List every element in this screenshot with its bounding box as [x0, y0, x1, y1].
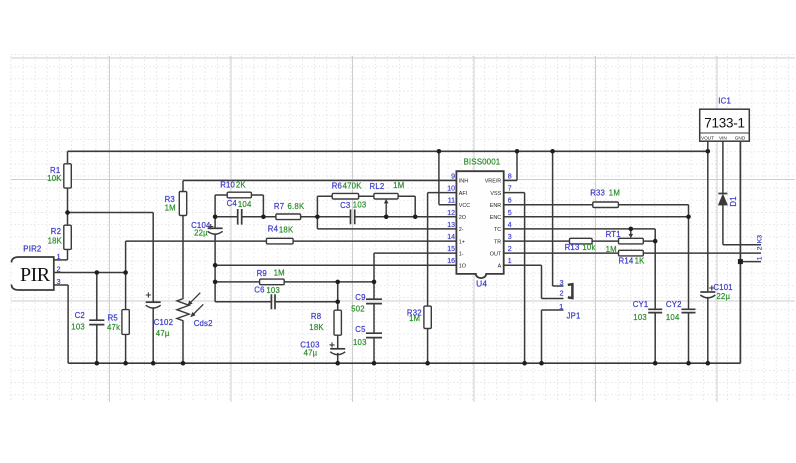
capacitor C101 (electrolytic): [700, 283, 733, 301]
svg-text:VCC: VCC: [459, 203, 470, 209]
wire C2 bottom lead: [96, 325, 98, 364]
svg-text:R10: R10: [220, 181, 235, 190]
wire pin9 INH row: [183, 180, 456, 182]
svg-text:INH: INH: [459, 179, 468, 185]
svg-text:1M: 1M: [409, 314, 420, 323]
node gnd R5: [123, 361, 128, 366]
svg-text:R8: R8: [311, 312, 321, 321]
node gnd C102: [151, 361, 156, 366]
resistor R9: [257, 269, 285, 285]
resistor R2: [48, 225, 72, 249]
wire R8 column: [337, 282, 339, 348]
svg-text:R33: R33: [590, 189, 605, 198]
connector JP1: [559, 278, 580, 321]
sensor PIR2: [12, 245, 61, 291]
svg-text:1: 1: [757, 256, 764, 260]
svg-text:C4: C4: [227, 199, 238, 208]
resistor R4: [266, 225, 294, 244]
svg-text:2: 2: [559, 289, 563, 298]
svg-text:18K: 18K: [279, 225, 294, 234]
svg-text:CY2: CY2: [666, 300, 682, 309]
wire R4 riser: [125, 241, 127, 272]
svg-text:R6: R6: [332, 182, 342, 191]
wire pin15 1- row: [374, 252, 456, 254]
resistor R7: [274, 202, 305, 220]
svg-text:1: 1: [559, 302, 563, 311]
wire pin12 row seg C4 left: [215, 216, 238, 218]
wire C6 row left: [215, 301, 271, 303]
U4 pin 1 (A) label: [498, 258, 512, 269]
resistor R32: [407, 306, 431, 328]
svg-text:R5: R5: [108, 313, 119, 322]
wire C9 top lead: [373, 253, 375, 299]
wire pin8 VREF row: [504, 180, 517, 182]
wire JP1 pin1 stub: [542, 309, 564, 311]
wire C102 top lead: [152, 213, 154, 303]
svg-text:10K: 10K: [47, 174, 62, 183]
svg-text:AFI: AFI: [459, 191, 467, 197]
node gnd C5: [372, 361, 377, 366]
U4 pin 9 (INH) label: [451, 174, 468, 185]
svg-text:5: 5: [508, 210, 512, 217]
node node RT1/TC/CY1: [653, 239, 658, 244]
connector K pin labels: [757, 235, 764, 260]
wire CY1 bottom lead: [654, 313, 656, 363]
capacitor C5: [353, 325, 382, 347]
node gnd JP1: [539, 361, 544, 366]
capacitor C4: [227, 199, 252, 224]
svg-text:2K: 2K: [236, 181, 247, 190]
U4 pin 11 (VCC) label: [448, 198, 471, 209]
svg-text:16: 16: [447, 258, 455, 265]
wire PIR pin1 stub: [54, 259, 68, 261]
node node C2/pin2: [95, 270, 100, 275]
U4 pin 14 (1+) label: [447, 234, 465, 245]
svg-text:A: A: [498, 263, 502, 269]
resistor R6: [332, 182, 363, 199]
wire PIR pin3 stub: [54, 284, 68, 286]
wire pin3 TR row / R13 RT1: [504, 240, 656, 242]
svg-text:1M: 1M: [274, 269, 285, 278]
U4 pin 3 (TR) label: [494, 234, 512, 245]
svg-text:1O: 1O: [459, 263, 466, 269]
wire C9-C5 link: [373, 304, 375, 333]
svg-text:ENR: ENR: [490, 203, 501, 209]
wire pin13 riser: [316, 217, 318, 229]
wire RL2 right riser: [414, 196, 416, 217]
U4 pin 2 (OUT) label: [490, 246, 512, 257]
U4 pin 8 (VRE/R) label: [485, 174, 512, 185]
node node VCC/VOUT: [706, 149, 711, 154]
capacitor CY1: [633, 300, 663, 322]
wire R6 left riser: [316, 196, 318, 217]
svg-text:14: 14: [447, 234, 455, 241]
node node RL2/AFI? pin12: [413, 215, 418, 220]
svg-text:Cds2: Cds2: [194, 319, 213, 328]
wire pin7 VSS row: [504, 192, 525, 194]
svg-text:1-: 1-: [459, 251, 464, 257]
wire VREF riser: [516, 151, 518, 180]
node gnd CY1: [653, 361, 658, 366]
wire R10 left riser: [214, 195, 216, 217]
wire pin5 ENC row: [504, 216, 689, 218]
node gnd C103: [335, 361, 340, 366]
svg-text:104: 104: [666, 313, 680, 322]
wire JP1 pin2 stub: [542, 298, 564, 300]
svg-text:GND: GND: [735, 136, 746, 141]
svg-text:C101: C101: [713, 283, 732, 292]
svg-text:JP1: JP1: [567, 312, 581, 321]
wire C5 bottom lead: [373, 338, 375, 363]
capacitor C104 (electrolytic): [191, 221, 223, 238]
wire pin2 OUT row / R14: [504, 252, 761, 254]
wire VIN column to D1: [722, 141, 724, 193]
svg-text:1K: 1K: [635, 256, 646, 265]
wire pin10 AFI row: [428, 192, 457, 194]
capacitor CY2: [666, 300, 696, 322]
svg-text:PIR2: PIR2: [23, 245, 41, 254]
wire C101 bottom lead: [707, 297, 709, 363]
svg-text:VRE/R: VRE/R: [485, 179, 502, 185]
wire pin12 row seg C4-C3: [242, 216, 351, 218]
wire R1/R2 node to C102: [68, 212, 154, 214]
wire R6-RL2 top run: [317, 195, 415, 197]
svg-text:R4: R4: [268, 225, 279, 234]
U4 pin 15 (1-) label: [447, 246, 464, 257]
U4 pin 12 (2O) label: [447, 210, 466, 221]
svg-text:47k: 47k: [107, 323, 120, 332]
svg-text:22µ: 22µ: [716, 292, 730, 301]
svg-text:103: 103: [633, 313, 647, 322]
svg-text:1: 1: [56, 252, 60, 261]
U4 pin 16 (1O) label: [447, 258, 466, 269]
U4 pin 7 (VSS) label: [490, 186, 511, 197]
svg-text:18K: 18K: [309, 323, 324, 332]
wire VCC drop to JP1 pin3: [552, 151, 554, 286]
svg-text:103: 103: [353, 201, 367, 210]
node node R9/C9: [372, 280, 377, 285]
U4 pin 5 (ENC) label: [490, 210, 512, 221]
node gnd CY2: [686, 361, 691, 366]
svg-text:502: 502: [351, 304, 365, 313]
svg-text:7: 7: [508, 186, 512, 193]
svg-text:C2: C2: [75, 311, 85, 320]
U4 pin 13 (2-) label: [447, 222, 464, 233]
wire CY2 bottom lead: [688, 313, 690, 363]
svg-text:4: 4: [508, 222, 512, 229]
svg-text:R13: R13: [565, 243, 580, 252]
svg-text:C5: C5: [355, 325, 366, 334]
svg-text:R2: R2: [51, 227, 61, 236]
svg-text:6: 6: [508, 198, 512, 205]
svg-text:OUT: OUT: [490, 251, 502, 257]
wire pin6 ENR row / R33: [504, 204, 689, 206]
svg-text:C3: C3: [340, 201, 350, 210]
wire pin16 1O row: [215, 264, 456, 266]
svg-text:C9: C9: [355, 293, 365, 302]
wire TC-CY1 column top: [654, 229, 656, 309]
wire ENC-CY2 column top: [688, 205, 690, 309]
wire R5 column: [125, 273, 127, 364]
U4 pin 10 (AFI) label: [447, 186, 467, 197]
wire C103 bottom lead: [337, 353, 339, 363]
diode D1: [718, 194, 738, 207]
svg-text:K3: K3: [757, 235, 764, 244]
wire R10 top run: [215, 194, 263, 196]
svg-text:470K: 470K: [343, 182, 363, 191]
svg-text:3: 3: [56, 277, 60, 286]
svg-text:D1: D1: [729, 196, 738, 206]
node node R5/R4: [123, 270, 128, 275]
svg-text:C6: C6: [254, 286, 264, 295]
svg-text:C102: C102: [154, 318, 173, 327]
svg-text:ENC: ENC: [490, 215, 501, 221]
svg-text:1M: 1M: [165, 204, 176, 213]
svg-text:1M: 1M: [609, 189, 620, 198]
capacitor C102 (electrolytic): [146, 292, 173, 338]
svg-text:47µ: 47µ: [156, 329, 170, 338]
wire D1 anode lead: [722, 205, 724, 245]
node node VCC/pin11: [437, 149, 442, 154]
wire R10 right riser: [262, 195, 264, 217]
potentiometer RT1: [606, 229, 644, 254]
svg-text:103: 103: [266, 286, 280, 295]
wire connector K pin1 stub: [740, 261, 761, 263]
svg-text:R9: R9: [257, 269, 267, 278]
wire C6 row right: [275, 301, 338, 303]
svg-text:103: 103: [353, 338, 367, 347]
node node C6/R8: [335, 300, 340, 305]
wire connector K pin3 stub: [723, 244, 761, 246]
U4 pin 4 (TC) label: [494, 222, 512, 233]
svg-text:1+: 1+: [459, 239, 465, 245]
wire AFI-R32 column: [427, 193, 429, 364]
wire pin1 A row: [504, 264, 542, 266]
node gnd R32: [425, 361, 430, 366]
wire Cds2 bottom lead: [182, 322, 184, 363]
wire pin13 2- row: [317, 228, 456, 230]
resistor R33: [590, 189, 620, 208]
wire A drop: [541, 265, 543, 298]
svg-text:U4: U4: [476, 278, 487, 288]
wire JP1 pin3 stub: [553, 285, 564, 287]
svg-text:VSS: VSS: [490, 191, 501, 197]
wire C104 top lead: [214, 217, 216, 228]
resistor R8: [309, 310, 341, 335]
node node R7/R6/C3/pin13: [315, 215, 320, 220]
wire R1-R2 column: [67, 151, 69, 260]
svg-text:47µ: 47µ: [304, 349, 318, 358]
wire pin4 TC row: [504, 228, 656, 230]
resistor R13: [565, 238, 596, 252]
node node C104/R9: [213, 280, 218, 285]
wire PIR pin2 row: [54, 272, 126, 274]
resistor R14: [619, 250, 646, 265]
svg-text:10k: 10k: [582, 243, 595, 252]
capacitor C3: [340, 201, 366, 225]
node gnd Cds2: [181, 361, 186, 366]
node node C4/R7: [261, 215, 266, 220]
wire VSS ground column: [524, 193, 526, 364]
wire VCC top rail: [68, 150, 708, 152]
svg-text:2: 2: [56, 265, 60, 274]
svg-text:6.8K: 6.8K: [288, 202, 305, 211]
wire left ground riser: [67, 285, 69, 363]
svg-text:1M: 1M: [606, 245, 617, 254]
svg-text:15: 15: [447, 246, 455, 253]
svg-text:7133-1: 7133-1: [704, 116, 745, 131]
svg-text:13: 13: [447, 222, 455, 229]
wire JP1 pin1 ground riser: [541, 310, 543, 363]
svg-text:TC: TC: [494, 227, 501, 233]
svg-text:1: 1: [508, 258, 512, 265]
svg-text:18K: 18K: [48, 237, 63, 246]
wire pin14 1+ row / R4: [126, 240, 457, 242]
node node R9/R8: [335, 280, 340, 285]
svg-text:9: 9: [451, 174, 455, 181]
wire R9 row: [215, 281, 374, 283]
node GND/K pin1: [738, 259, 743, 264]
svg-text:2: 2: [757, 246, 764, 250]
wire C102 bottom lead: [152, 307, 154, 363]
capacitor C6: [254, 286, 280, 310]
resistor R1: [47, 164, 71, 188]
svg-text:12: 12: [447, 210, 455, 217]
wire right ground column: [739, 141, 741, 363]
svg-text:2O: 2O: [459, 215, 466, 221]
svg-text:R14: R14: [619, 256, 634, 265]
node node R33/ENC/CY2: [686, 215, 691, 220]
svg-text:R7: R7: [274, 202, 284, 211]
node node RT1 wiper/TC: [629, 227, 634, 232]
op-amp IC U4 BISS0001: [456, 157, 503, 288]
svg-text:22µ: 22µ: [194, 229, 208, 238]
svg-text:104: 104: [238, 200, 252, 209]
svg-text:BISS0001: BISS0001: [464, 157, 501, 166]
potentiometer RL2: [370, 181, 405, 217]
resistor R10: [220, 181, 251, 198]
wire C104 bottom lead: [214, 234, 216, 302]
svg-text:RT1: RT1: [606, 230, 621, 239]
svg-text:2-: 2-: [459, 227, 464, 233]
svg-text:TR: TR: [494, 239, 501, 245]
node gnd VSS: [522, 361, 527, 366]
wire C2 top lead: [96, 273, 98, 321]
resistor R5: [107, 310, 129, 335]
svg-text:1M: 1M: [393, 181, 404, 190]
wire VOUT column upper: [707, 141, 709, 291]
node node VCC/JP1: [550, 149, 555, 154]
svg-text:103: 103: [71, 322, 85, 331]
node node R10/C4/C104: [213, 215, 218, 220]
svg-text:11: 11: [448, 198, 455, 205]
svg-text:CY1: CY1: [633, 300, 649, 309]
wire pin12 2O row seg right: [355, 216, 457, 218]
svg-text:8: 8: [508, 174, 512, 181]
svg-text:10: 10: [447, 186, 455, 193]
svg-text:3: 3: [560, 278, 564, 287]
node gnd C2: [95, 361, 100, 366]
wire VCC drop to pin11: [438, 151, 440, 204]
svg-text:VOUT: VOUT: [701, 136, 714, 141]
capacitor C2: [71, 311, 104, 331]
wire pin11 VCC row: [439, 204, 457, 206]
node gnd C101: [706, 361, 711, 366]
node node RL2 wiper: [384, 215, 389, 220]
U4 pin 6 (ENR) label: [490, 198, 512, 209]
node node R1/R2/C102: [65, 210, 70, 215]
svg-text:VIN: VIN: [719, 136, 727, 141]
wire ground rail: [68, 362, 740, 364]
wire R3-Cds2 column: [182, 181, 184, 298]
regulator IC1 7133-1: [700, 97, 750, 142]
resistor R3: [165, 192, 187, 216]
svg-text:IC1: IC1: [718, 97, 731, 106]
capacitor C103 (electrolytic): [300, 341, 345, 358]
svg-text:RL2: RL2: [370, 182, 385, 191]
node node C104/pin16: [213, 263, 218, 268]
svg-text:PIR: PIR: [20, 264, 51, 286]
capacitor C9: [351, 293, 382, 313]
svg-text:2: 2: [508, 246, 512, 253]
photoresistor Cds2: [177, 293, 213, 329]
node node VCC/VREF: [515, 149, 520, 154]
svg-text:3: 3: [508, 234, 512, 241]
